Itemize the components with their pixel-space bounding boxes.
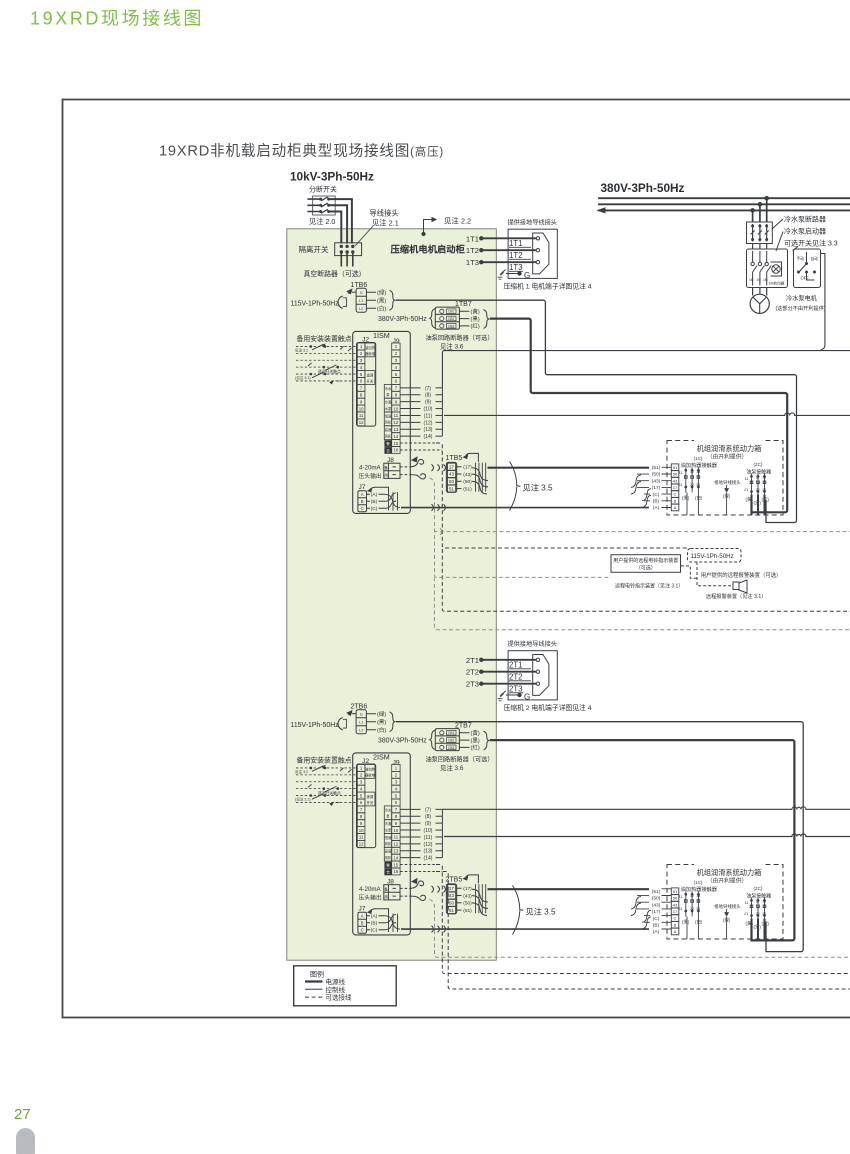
legend control line [305,988,323,990]
svg-text:自动: 自动 [811,256,819,261]
svg-text:2T1: 2T1 [466,656,479,665]
gray corner tab [16,1128,35,1154]
legend box [294,966,397,1006]
main frame [63,100,850,1018]
dashed: J9-15/16 run down to remote line [436,443,688,548]
svg-text:1M: 1M [756,278,761,282]
wire: J9 pin 11 control line [444,413,850,416]
dashed: J8 shielded pair run (comp 2) [430,899,850,957]
svg-text:用户提供的远程电铃指示装置: 用户提供的远程电铃指示装置 [613,557,678,564]
dashed: J8 shielded pair run [430,478,612,578]
svg-text:1T1: 1T1 [509,239,522,248]
lube power box 1 [652,437,783,516]
svg-text:1TB5: 1TB5 [446,455,463,462]
wires breaker to starter [753,244,767,250]
svg-text:冷水泵启动器: 冷水泵启动器 [784,227,826,236]
svg-text:1M: 1M [763,278,768,282]
svg-text:冷水泵电机: 冷水泵电机 [786,295,818,303]
svg-text:1TB6: 1TB6 [351,282,368,289]
note 2.2 pointer [424,220,437,234]
svg-text:380V-3Ph-50Hz: 380V-3Ph-50Hz [601,181,685,195]
wire switch to isolator terminals [329,199,352,243]
svg-text:2ISM: 2ISM [373,752,390,761]
chilled water pump motor M [750,294,769,313]
svg-text:压缩机电机启动柜: 压缩机电机启动柜 [391,244,466,255]
chevron hops comp1 [432,464,446,471]
svg-text:115V-1Ph-50Hz: 115V-1Ph-50Hz [691,553,734,560]
svg-text:见注 2.0: 见注 2.0 [309,217,335,226]
wire: 2TB7 cable to lube box 2 loop (power) [490,740,795,940]
legend optional line [305,996,323,998]
dashed: J9-16 run to bottom [436,871,850,989]
svg-text:冷水泵断路器: 冷水泵断路器 [784,215,826,224]
remote alarm bell [697,562,731,586]
svg-text:分断开关: 分断开关 [309,185,337,194]
note 3.5 brace (comp 2) [513,886,556,935]
ISM module 2ISM [291,640,672,935]
overload relay [771,262,782,276]
svg-text:2T1: 2T1 [509,661,522,670]
dashed: J9-15 run to bottom [436,865,850,974]
svg-text:19XRD现场接线图: 19XRD现场接线图 [30,9,204,29]
svg-text:压缩机 1 电机端子详图见注 4: 压缩机 1 电机端子详图见注 4 [504,282,592,291]
isolator terminal box [335,243,362,256]
svg-text:2T3: 2T3 [466,680,479,689]
svg-text:2T2: 2T2 [466,668,479,677]
svg-text:手动: 手动 [797,256,805,261]
svg-text:（可选）: （可选） [636,565,656,572]
svg-text:见注 2.1: 见注 2.1 [372,219,399,228]
wire: 1TB7 cable to lube box loop (power) [490,319,787,513]
svg-text:10kV-3Ph-50Hz: 10kV-3Ph-50Hz [290,170,374,184]
svg-text:真空断路器（可选）: 真空断路器（可选） [304,269,366,278]
wire: J9 collector control line (comp 2) [442,807,850,810]
svg-text:1T1: 1T1 [466,234,479,243]
optional dashed wiring (comp 2, bottom) [436,865,850,989]
svg-text:远程电铃指示装置（见注 3.1）: 远程电铃指示装置（见注 3.1） [615,583,683,590]
svg-text:1T3: 1T3 [509,263,522,272]
ISM module 1ISM [291,219,672,514]
chevron hops comp2 [432,886,446,893]
svg-text:控制线: 控制线 [326,985,346,994]
bus line L3 [598,209,850,211]
svg-text:1T2: 1T2 [509,251,522,260]
svg-text:远程报警装置（见注 3.1）: 远程报警装置（见注 3.1） [706,592,767,600]
svg-text:见注 2.2: 见注 2.2 [444,217,471,226]
bus taps [765,196,769,200]
svg-text:可选开关见注 3.3: 可选开关见注 3.3 [784,239,838,248]
svg-text:压缩机 2 电机端子详图见注 4: 压缩机 2 电机端子详图见注 4 [504,703,592,712]
wires below isolator [341,252,353,267]
svg-text:1M启动器: 1M启动器 [769,281,785,286]
svg-text:(这部分不由开利提供): (这部分不由开利提供) [776,304,826,312]
svg-text:2T2: 2T2 [509,673,522,682]
disconnect switch SW1 [307,196,335,215]
svg-text:隔离开关: 隔离开关 [299,244,329,254]
wire: J9 collector control line [442,351,850,388]
svg-text:用户提供的远程报警装置（可选）: 用户提供的远程报警装置（可选） [701,571,782,579]
pointer wire [355,226,373,246]
svg-text:19XRD非机载启动柜典型现场接线图(高压): 19XRD非机载启动柜典型现场接线图(高压) [159,143,444,160]
pump breaker box [747,222,773,244]
note 3.5 brace (comp 1) [510,462,553,511]
pump starter box [747,249,788,288]
svg-text:1TB7: 1TB7 [455,301,472,308]
lube power box 2 [652,861,783,940]
svg-text:可选接线: 可选接线 [326,993,353,1002]
wire: optional switch to control line [821,254,825,350]
wire: 1TB6 cable to lube box loop [396,300,797,522]
wire: 2TB6 cable to lube box 2 loop [396,722,803,952]
optional switch box [794,249,821,288]
bus line L2 [598,203,850,205]
svg-text:2TB6: 2TB6 [351,704,368,711]
optional dashed wiring (comp 1) [436,443,850,611]
svg-text:导线接头: 导线接头 [370,209,399,218]
svg-text:图例: 图例 [310,970,324,979]
bus line L1 [598,197,850,199]
svg-text:2TB7: 2TB7 [455,723,472,730]
remote indicator device box [611,555,782,600]
legend power line [305,980,323,982]
svg-text:2T3: 2T3 [509,685,522,694]
compressor motor starter cabinet (green panel) [287,229,497,960]
115V supply tag [688,549,742,563]
svg-text:27: 27 [14,1106,31,1123]
svg-text:1T3: 1T3 [466,258,479,267]
svg-text:1ISM: 1ISM [373,331,390,340]
pump motor wires [753,288,767,296]
svg-text:1T2: 1T2 [466,246,479,255]
svg-text:1M: 1M [749,278,754,282]
svg-text:电源线: 电源线 [326,977,346,986]
wire: J9 pin 11 control line (comp 2) [444,834,850,837]
